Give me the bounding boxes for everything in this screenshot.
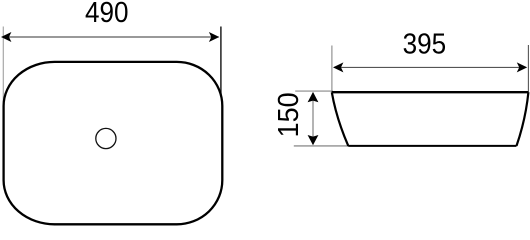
side view left wall bbox=[332, 92, 349, 146]
490 extension line right bbox=[220, 27, 222, 111]
395 dimension line bbox=[334, 66, 526, 68]
150 extension line top bbox=[295, 90, 333, 92]
150 arrowhead top bbox=[308, 92, 319, 102]
svg-text:490: 490 bbox=[85, 0, 129, 28]
150 arrowhead bottom bbox=[308, 135, 319, 145]
490 arrowhead right bbox=[209, 32, 219, 42]
drain hole bbox=[96, 128, 116, 148]
side view rim top bbox=[332, 91, 529, 93]
svg-text:150: 150 bbox=[272, 92, 304, 137]
395 arrowhead right bbox=[517, 62, 527, 72]
490 dimension line bbox=[5, 36, 219, 38]
side view bottom bbox=[348, 145, 516, 147]
395 extension line left bbox=[331, 46, 333, 93]
395 extension line right bbox=[527, 45, 529, 92]
top view basin outline bbox=[4, 62, 223, 224]
395 arrowhead left bbox=[333, 62, 343, 72]
side view right wall bbox=[517, 92, 529, 146]
150 extension line bottom bbox=[294, 145, 350, 147]
150 dimension line bbox=[312, 93, 314, 144]
svg-text:395: 395 bbox=[403, 27, 447, 60]
490 extension line left bbox=[2, 27, 4, 111]
490 arrowhead left bbox=[1, 32, 11, 42]
